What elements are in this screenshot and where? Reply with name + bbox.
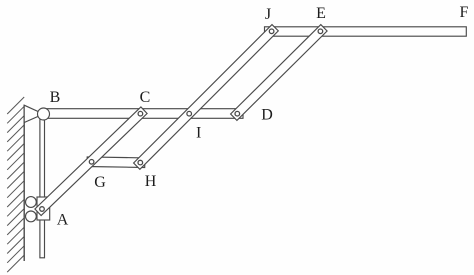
svg-text:A: A bbox=[57, 212, 69, 229]
pin G bbox=[89, 160, 94, 165]
pin A bbox=[40, 207, 45, 212]
slider block A bbox=[37, 197, 50, 220]
svg-text:J: J bbox=[265, 6, 271, 23]
bar B-C-I-D bbox=[44, 109, 244, 119]
pin H bbox=[138, 160, 143, 165]
svg-text:I: I bbox=[196, 124, 201, 141]
roller upper bbox=[26, 197, 37, 208]
bracket triangle at B bbox=[24, 105, 43, 122]
svg-text:F: F bbox=[460, 4, 469, 21]
wall face line bbox=[23, 105, 25, 261]
wall hatching bbox=[7, 97, 24, 272]
link D-E bbox=[231, 25, 328, 121]
link H-I-J bbox=[134, 25, 279, 170]
svg-text:B: B bbox=[50, 89, 61, 106]
roller lower bbox=[26, 211, 37, 222]
vertical rod bbox=[40, 113, 45, 258]
link A-C bbox=[35, 107, 147, 216]
pivot circle B bbox=[38, 108, 50, 120]
svg-text:D: D bbox=[261, 107, 273, 124]
svg-text:H: H bbox=[145, 173, 157, 190]
top bar J-E-F bbox=[265, 27, 467, 36]
pin J bbox=[269, 29, 274, 34]
pin D bbox=[235, 111, 240, 116]
svg-text:E: E bbox=[316, 5, 326, 22]
pin I bbox=[187, 111, 192, 116]
pin C bbox=[138, 111, 143, 116]
link G-H bbox=[87, 157, 145, 168]
pin E bbox=[318, 29, 323, 34]
svg-text:C: C bbox=[140, 89, 151, 106]
svg-text:G: G bbox=[94, 174, 106, 191]
